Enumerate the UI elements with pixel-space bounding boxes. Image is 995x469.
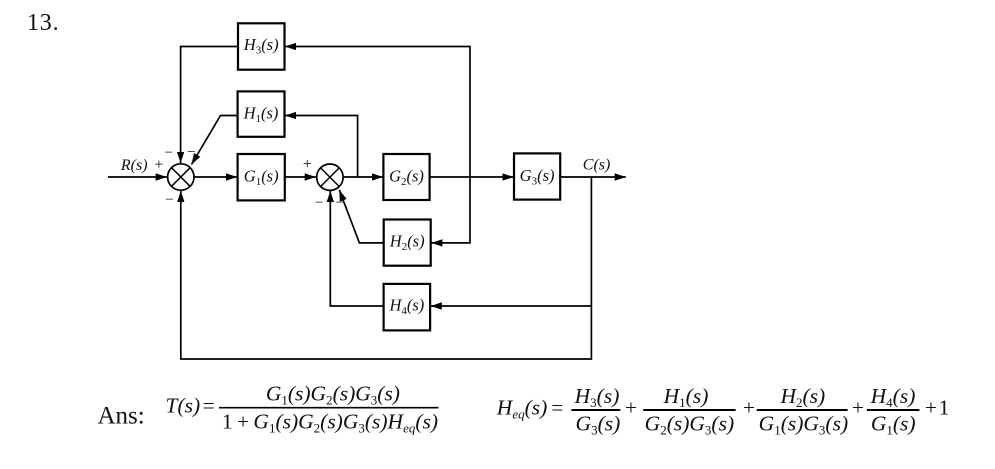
svg-text:T(s)=: T(s)= — [166, 394, 215, 418]
wire H1 output diagonal into S1 — [192, 116, 238, 165]
block H3 — [238, 23, 285, 69]
svg-text:−: − — [315, 195, 323, 211]
block H4 — [384, 284, 431, 331]
svg-text:13.: 13. — [27, 10, 59, 36]
block G1 — [238, 154, 285, 200]
svg-text:H2(s): H2(s) — [779, 384, 825, 410]
svg-text:H1(s): H1(s) — [243, 104, 279, 126]
svg-text:−: − — [165, 145, 173, 161]
svg-text:G1(s)G2(s)G3(s): G1(s)G2(s)G3(s) — [266, 382, 400, 408]
wire H3 feedback: tap at (470,177) up and into H3 — [285, 47, 470, 178]
block H2 — [384, 220, 431, 266]
svg-text:H2(s): H2(s) — [389, 232, 425, 254]
block H1 — [238, 91, 285, 136]
summing junction S2 — [317, 164, 343, 190]
svg-text:H4(s): H4(s) — [388, 296, 424, 318]
wire S1 to G1 — [195, 176, 238, 178]
wire G1 to summer S2 — [285, 176, 316, 178]
wire H4 input branch from outer feedback vertical — [431, 305, 592, 307]
svg-text:−: − — [187, 145, 195, 161]
block G2 — [383, 154, 429, 200]
fraction bar H3/G3 — [571, 409, 620, 411]
fraction bar H2/(G1G3) — [757, 409, 848, 411]
wire R(s) input into summer S1 — [108, 176, 167, 178]
svg-text:H3(s): H3(s) — [243, 35, 279, 57]
wire G2 to G3 with tap at x=470 — [430, 176, 514, 178]
svg-text:+: + — [303, 156, 312, 173]
fraction bar of T(s) formula — [219, 407, 439, 409]
svg-text:+: + — [154, 157, 163, 174]
svg-text:+: + — [925, 396, 937, 420]
svg-text:G2(s)G3(s): G2(s)G3(s) — [645, 412, 734, 438]
svg-text:G1(s)G3(s): G1(s)G3(s) — [759, 412, 848, 438]
svg-text:1: 1 — [939, 396, 950, 420]
svg-text:H4(s): H4(s) — [870, 384, 916, 410]
fraction bar H1/(G2G3) — [643, 409, 735, 411]
wire G3 to output C(s) — [560, 176, 626, 178]
svg-text:1 + G1(s)G2(s)G3(s)Heq(s): 1 + G1(s)G2(s)G3(s)Heq(s) — [222, 410, 438, 436]
block G3 — [514, 153, 560, 199]
svg-text:G1(s): G1(s) — [244, 167, 279, 189]
summing junction S1 — [168, 164, 194, 190]
wire H3 output: left then down into S1 top — [181, 47, 238, 164]
svg-text:+: + — [625, 396, 637, 420]
svg-text:H1(s): H1(s) — [663, 384, 709, 410]
svg-text:R(s): R(s) — [120, 157, 148, 174]
wire H2 output diagonal into S2 — [339, 190, 383, 243]
wire outer feedback: tap on C(s) line down, along bottom, up into S1 bottom — [181, 177, 592, 359]
svg-text:+: + — [743, 396, 755, 420]
svg-text:C(s): C(s) — [583, 157, 611, 174]
wire S2 to G2 with H1 tap node — [343, 176, 383, 178]
svg-text:Ans:: Ans: — [98, 403, 145, 430]
wire H4 output: left then up into S2 bottom — [330, 191, 383, 306]
svg-text:G3(s): G3(s) — [520, 166, 555, 188]
fraction bar H4/G1 — [867, 409, 920, 411]
svg-text:H3(s): H3(s) — [574, 384, 620, 410]
svg-text:G3(s): G3(s) — [576, 412, 621, 438]
svg-text:Heq(s)=: Heq(s)= — [496, 396, 564, 422]
wire H2 feedback: tap at (470,177) down and into H2 — [431, 177, 470, 243]
wire H1 tap: from main line up and into H1 — [285, 116, 358, 178]
svg-text:G1(s): G1(s) — [871, 412, 916, 438]
svg-text:−: − — [165, 192, 173, 208]
svg-text:G2(s): G2(s) — [389, 167, 424, 189]
svg-text:+: + — [852, 396, 864, 420]
